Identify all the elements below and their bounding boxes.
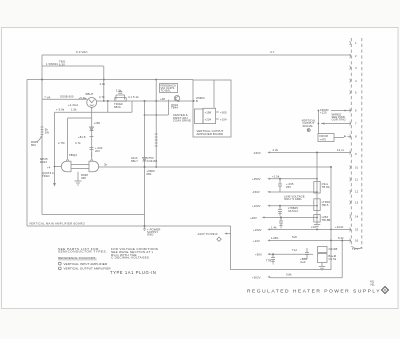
tube V1 6BH7: [87, 97, 97, 107]
wire y=79.5 horizontal: [27, 79, 193, 81]
pot R905 marks: [41, 127, 44, 135]
svg-text:4.1 5.1k: 4.1 5.1k: [128, 95, 139, 99]
svg-text:VERTICAL INPUT AMPLIFIER: VERTICAL INPUT AMPLIFIER: [64, 262, 108, 266]
IC U600: [203, 108, 216, 123]
pin numbers: [355, 41, 359, 243]
svg-text:TR1D: TR1D: [42, 174, 50, 178]
svg-text:TBL5: TBL5: [322, 203, 329, 207]
resistor R607 box: [115, 98, 126, 102]
wire x=156 vertical: [155, 80, 157, 168]
svg-text:OUR TRIG: OUR TRIG: [332, 118, 346, 122]
svg-text:TO BAL: TO BAL: [161, 89, 172, 93]
svg-text:+198: +198: [205, 111, 212, 115]
svg-text:0.8k: 0.8k: [286, 273, 292, 277]
svg-text:12,xx: 12,xx: [337, 148, 345, 152]
node dot: [155, 100, 157, 102]
tube V2 6BQ4 dual: [61, 161, 98, 171]
svg-text:B: B: [196, 99, 198, 103]
IC pins right: [216, 112, 219, 119]
ref item 2: [58, 267, 61, 270]
svg-text:1 SW601: 1 SW601: [46, 62, 58, 66]
svg-text:+50V: +50V: [255, 253, 262, 257]
svg-text:6.3V: 6.3V: [59, 63, 65, 67]
svg-text:C614B: C614B: [329, 247, 338, 251]
svg-text:2k: 2k: [104, 163, 108, 167]
svg-text:SG0B 600: SG0B 600: [60, 95, 74, 99]
svg-text:+150: +150: [94, 121, 101, 125]
svg-text:+4: +4: [47, 166, 51, 170]
wire y=115: [145, 100, 169, 115]
capacitor C50: [271, 254, 275, 264]
cathode resistor: [77, 172, 79, 181]
svg-text:1+BG: 1+BG: [271, 236, 279, 240]
resistor box RB1: [314, 182, 320, 194]
svg-text:SIGNAL: SIGNAL: [303, 124, 314, 128]
svg-text:+81.8: +81.8: [78, 135, 86, 139]
capacitor C100: [278, 206, 282, 217]
svg-text:-150V: -150V: [252, 190, 260, 194]
amplifier block outline: [193, 80, 231, 137]
wire bottom long y=226: [27, 225, 231, 227]
svg-text:SEMICONDUCTOR TYPES.: SEMICONDUCTOR TYPES.: [58, 249, 107, 253]
FROM +470 box: [318, 134, 334, 142]
svg-text:R913: R913: [40, 160, 47, 164]
svg-text:6BQ4: 6BQ4: [69, 153, 77, 157]
svg-text:ONLY 5 A2BL: ONLY 5 A2BL: [284, 197, 302, 201]
resistor box RB3: [314, 215, 320, 223]
inner left vertical x=42: [41, 99, 43, 214]
svg-text:x10: x10: [311, 225, 316, 229]
node dot: [193, 100, 195, 102]
title diamond: [382, 287, 389, 294]
svg-text:+225: +225: [320, 111, 327, 115]
wire x=103.5 link: [103, 66, 105, 101]
wire from +225 to pin: [331, 110, 351, 112]
svg-text:+1.5k: +1.5k: [272, 175, 280, 179]
connector dashed line B: [361, 38, 363, 249]
connector end bracket: [351, 246, 362, 249]
connector pins: [349, 41, 352, 242]
svg-text:+ 5.6k: + 5.6k: [56, 108, 65, 112]
svg-text:+302V: +302V: [252, 276, 261, 280]
wire 6.3VAC top line: [42, 54, 351, 56]
ground V2: [75, 181, 82, 185]
svg-text:4.7k: 4.7k: [99, 95, 105, 99]
zener chain x=91.5: [91, 107, 93, 157]
long vertical x=144.5: [144, 101, 146, 226]
svg-text:16: 16: [355, 239, 359, 243]
ref item 1: [58, 262, 61, 265]
node dot: [144, 166, 146, 168]
svg-text:C DECIMAL VOLTAGES: C DECIMAL VOLTAGES: [111, 256, 149, 260]
svg-text:VERTICAL MAIN AMPLIFIER BOARD: VERTICAL MAIN AMPLIFIER BOARD: [29, 222, 85, 226]
svg-text:+350V: +350V: [252, 177, 261, 181]
bus x=330.4: [330, 167, 332, 270]
svg-text:10: 10: [355, 166, 359, 170]
svg-text:-100V TO R910: -100V TO R910: [197, 232, 218, 236]
svg-text:11: 11: [355, 178, 358, 182]
wire plate line: [97, 100, 194, 102]
vertical x=54.5 with arrow: [54, 112, 56, 183]
svg-text:T7B: T7B: [266, 259, 271, 263]
svg-text:AMPLIFIER BOARD: AMPLIFIER BOARD: [197, 132, 224, 136]
cap .004: [90, 148, 94, 150]
svg-text:1.5k: 1.5k: [71, 108, 77, 112]
svg-text:4.7k: 4.7k: [75, 141, 81, 145]
title block: [247, 280, 389, 295]
svg-text:682A: 682A: [114, 105, 121, 109]
svg-text:+470: +470: [320, 137, 327, 141]
svg-text:13: 13: [355, 201, 359, 205]
node dot: [107, 100, 109, 102]
svg-text:+154: +154: [220, 118, 227, 122]
svg-text:2W: 2W: [45, 130, 50, 134]
svg-text:5.2k: 5.2k: [338, 236, 344, 240]
wire grid V1: [42, 98, 87, 100]
svg-text:1.4k: 1.4k: [271, 225, 277, 229]
diode D9: [90, 127, 94, 131]
capacitor C350: [278, 179, 282, 192]
vertical x=132 down: [131, 101, 133, 112]
node dot: [144, 100, 146, 102]
transistor Q604: [174, 96, 179, 101]
svg-text:680: 680: [147, 172, 152, 176]
svg-text:+4.3mA: +4.3mA: [68, 103, 78, 107]
svg-text:+22V: +22V: [253, 239, 260, 243]
ref symbol: [307, 129, 310, 132]
svg-text:TL2: TL2: [292, 248, 297, 252]
svg-text:4.7: 4.7: [270, 50, 275, 54]
resistor R61x marks: [155, 134, 158, 146]
svg-text:+48V: +48V: [250, 216, 257, 220]
svg-text:25V: 25V: [286, 185, 291, 189]
svg-text:REFERENCE DIAGRAMS:: REFERENCE DIAGRAMS:: [58, 256, 97, 260]
svg-text:2.7M: 2.7M: [58, 141, 65, 145]
wire outer left vertical: [26, 80, 28, 227]
inner box bottom: [42, 213, 145, 215]
svg-text:+38: +38: [160, 97, 165, 101]
svg-text:4.2k: 4.2k: [100, 82, 106, 86]
svg-text:TB4A: TB4A: [171, 106, 178, 110]
svg-text:468: 468: [81, 176, 86, 180]
resistor box RB2: [314, 199, 320, 211]
capacitor bracket over R607: [116, 92, 125, 100]
svg-text:+100V: +100V: [252, 204, 261, 208]
svg-text:6BH7: 6BH7: [86, 92, 94, 96]
svg-text:1N4152: 1N4152: [147, 159, 158, 163]
wire y=112.3: [55, 111, 133, 113]
svg-text:TB.8A: TB.8A: [322, 185, 330, 189]
pot wiper arrow: [38, 137, 42, 141]
svg-text:1.5k: 1.5k: [116, 89, 122, 93]
svg-text:GND: GND: [147, 233, 153, 237]
svg-text:+305: +305: [220, 111, 227, 115]
svg-text:+234: +234: [205, 118, 212, 122]
wire into IC: [213, 80, 215, 108]
diode on x=144.5: [143, 158, 147, 162]
cap cluster boxes: [318, 247, 328, 253]
ground bus: [314, 222, 320, 228]
svg-text:6BL7: 6BL7: [131, 159, 138, 163]
svg-text:TYPE 1A1 PLUG-IN: TYPE 1A1 PLUG-IN: [110, 270, 157, 275]
svg-text:-150V: -150V: [253, 151, 261, 155]
svg-text:muF: muF: [300, 260, 306, 264]
bus x=317: [316, 153, 318, 223]
svg-text:+6.4: +6.4: [79, 96, 85, 100]
svg-text:800: 800: [31, 143, 36, 147]
svg-text:TBL8B: TBL8B: [322, 218, 331, 222]
wire left bus vertical: [41, 55, 43, 99]
node dot: [103, 79, 105, 81]
ground cluster: [319, 263, 325, 271]
node dot: [41, 79, 43, 81]
vertical x=107.8 down: [107, 101, 109, 112]
wire y=167 long: [99, 166, 330, 168]
svg-text:15: 15: [355, 228, 359, 232]
svg-text:+22uF: +22uF: [335, 225, 344, 229]
svg-text:12: 12: [355, 190, 359, 194]
svg-text:5x8: 5x8: [292, 235, 297, 239]
svg-text:2kV: 2kV: [95, 149, 100, 153]
wire right drop: [231, 226, 343, 278]
svg-text:VERTICAL OUTPUT AMPLIFIER: VERTICAL OUTPUT AMPLIFIER: [64, 267, 112, 271]
svg-text:+150V: +150V: [253, 228, 262, 232]
wire output signal to pin: [321, 123, 351, 125]
svg-text:3A70x4: 3A70x4: [288, 209, 298, 213]
tube pin triangles: [66, 159, 69, 161]
vertical x=318.4: [317, 111, 319, 134]
capacitor C48: [279, 218, 283, 229]
svg-text:14: 14: [355, 215, 359, 219]
cap C5BB: [305, 248, 309, 259]
svg-text:VEL: VEL: [370, 282, 375, 286]
wire transformer secondary: [42, 65, 104, 67]
wire y=118: [68, 118, 92, 159]
svg-text:6.3 VAC: 6.3 VAC: [76, 50, 88, 54]
svg-text:TP.1: TP.1: [352, 247, 358, 251]
diamond ref: [217, 237, 221, 241]
svg-text:7 VA: 7 VA: [44, 96, 50, 100]
wire tube left: [55, 166, 62, 168]
svg-text:C1.5k: C1.5k: [329, 257, 337, 261]
note box feedback: [160, 84, 178, 93]
node dot: [144, 225, 146, 227]
connector dashed line A: [350, 38, 352, 246]
svg-text:REGULATED HEATER POWER SUPPLY: REGULATED HEATER POWER SUPPLY: [247, 289, 381, 295]
svg-text:2.2k: 2.2k: [273, 148, 279, 152]
svg-text:COAX DRIVE: COAX DRIVE: [173, 119, 191, 123]
